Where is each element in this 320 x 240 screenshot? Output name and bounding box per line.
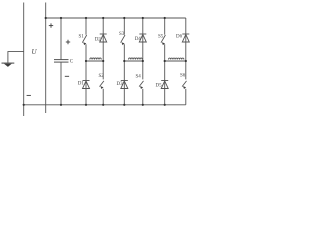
junction top bus / branch4 [142,17,144,19]
diode D1 [83,81,90,89]
svg-text:C: C [70,59,74,64]
junction bottom bus / branch5 [164,104,166,106]
node phase1 left [85,60,87,62]
junction top bus / branch5 [164,17,166,19]
wire ground tap [8,52,24,63]
switch S2 [100,79,106,89]
svg-text:U: U [32,48,38,56]
wire negative rail A vertical [23,3,25,117]
wire top bus [46,17,186,19]
junction top bus / capacitor [60,17,62,19]
diode D5 [161,81,168,89]
wire branch1 upper (top bus to S1) [85,18,87,35]
switch S1 [82,35,86,45]
wire branch1 (node A1 to D1) [85,61,87,105]
label + (source positive) [49,23,53,27]
svg-text:S5: S5 [158,35,164,40]
junction bottom bus / branch4 [142,104,144,106]
junction top bus / rail B [45,17,47,19]
junction top bus / branch2 [102,17,104,19]
junction top bus / branch1 [85,17,87,19]
svg-text:D3: D3 [117,82,124,87]
svg-text:D1: D1 [78,82,85,87]
node phase2 left [123,60,125,62]
node phase1 right [102,60,104,62]
svg-text:S6: S6 [180,74,186,79]
junction top bus / branch3 [123,17,125,19]
ground [2,63,15,67]
svg-text:S3: S3 [119,32,125,37]
winding phase 1 [86,58,103,61]
wire branch3 upper (top bus to S3) [123,18,125,35]
diode D2 [100,34,107,42]
wire bottom bus [24,104,186,106]
wire branch5 lower [164,44,166,105]
wire branch5 upper (top bus to S5) [164,18,166,35]
wire positive rail B vertical [45,3,47,114]
winding phase 3 [165,58,186,61]
wire right edge vertical (branch of D6/S6) [185,18,187,105]
svg-text:D6: D6 [176,35,183,40]
junction bottom bus / branch2 [102,104,104,106]
wire branch1 (S1 to phase node A1) [85,44,87,61]
diode D3 [121,81,128,89]
svg-text:S4: S4 [136,75,142,80]
diode D6 [182,34,189,42]
junction bottom bus / rail A [23,104,25,106]
wire branch2 upper (top bus to D2) [102,18,104,105]
svg-text:D4: D4 [135,37,142,42]
switch S6 [182,79,188,89]
capacitor C1 branch wire bottom [60,62,62,105]
wire branch4 (top bus to bottom bus) [142,18,144,105]
winding phase 2 [124,58,143,61]
node phase3 left [164,60,166,62]
svg-text:S1: S1 [79,35,85,40]
junction bottom bus / capacitor [60,104,62,106]
junction bottom bus / branch3 [123,104,125,106]
label - (source negative) [27,94,31,96]
wire branch3 lower [123,44,125,105]
diode D4 [139,34,146,42]
label + (capacitor positive) [66,40,70,44]
switch S5 [161,35,165,45]
capacitor C [54,60,69,63]
label - (capacitor negative) [65,75,69,77]
switch S4 [139,79,145,89]
capacitor C1 branch wire top [60,18,62,60]
junction bottom bus / branch1 [85,104,87,106]
svg-text:D2: D2 [95,38,102,43]
node phase3 right [185,60,187,62]
node phase2 right [142,60,144,62]
switch S3 [121,35,125,45]
svg-text:S2: S2 [99,74,105,79]
svg-text:D5: D5 [156,84,163,89]
